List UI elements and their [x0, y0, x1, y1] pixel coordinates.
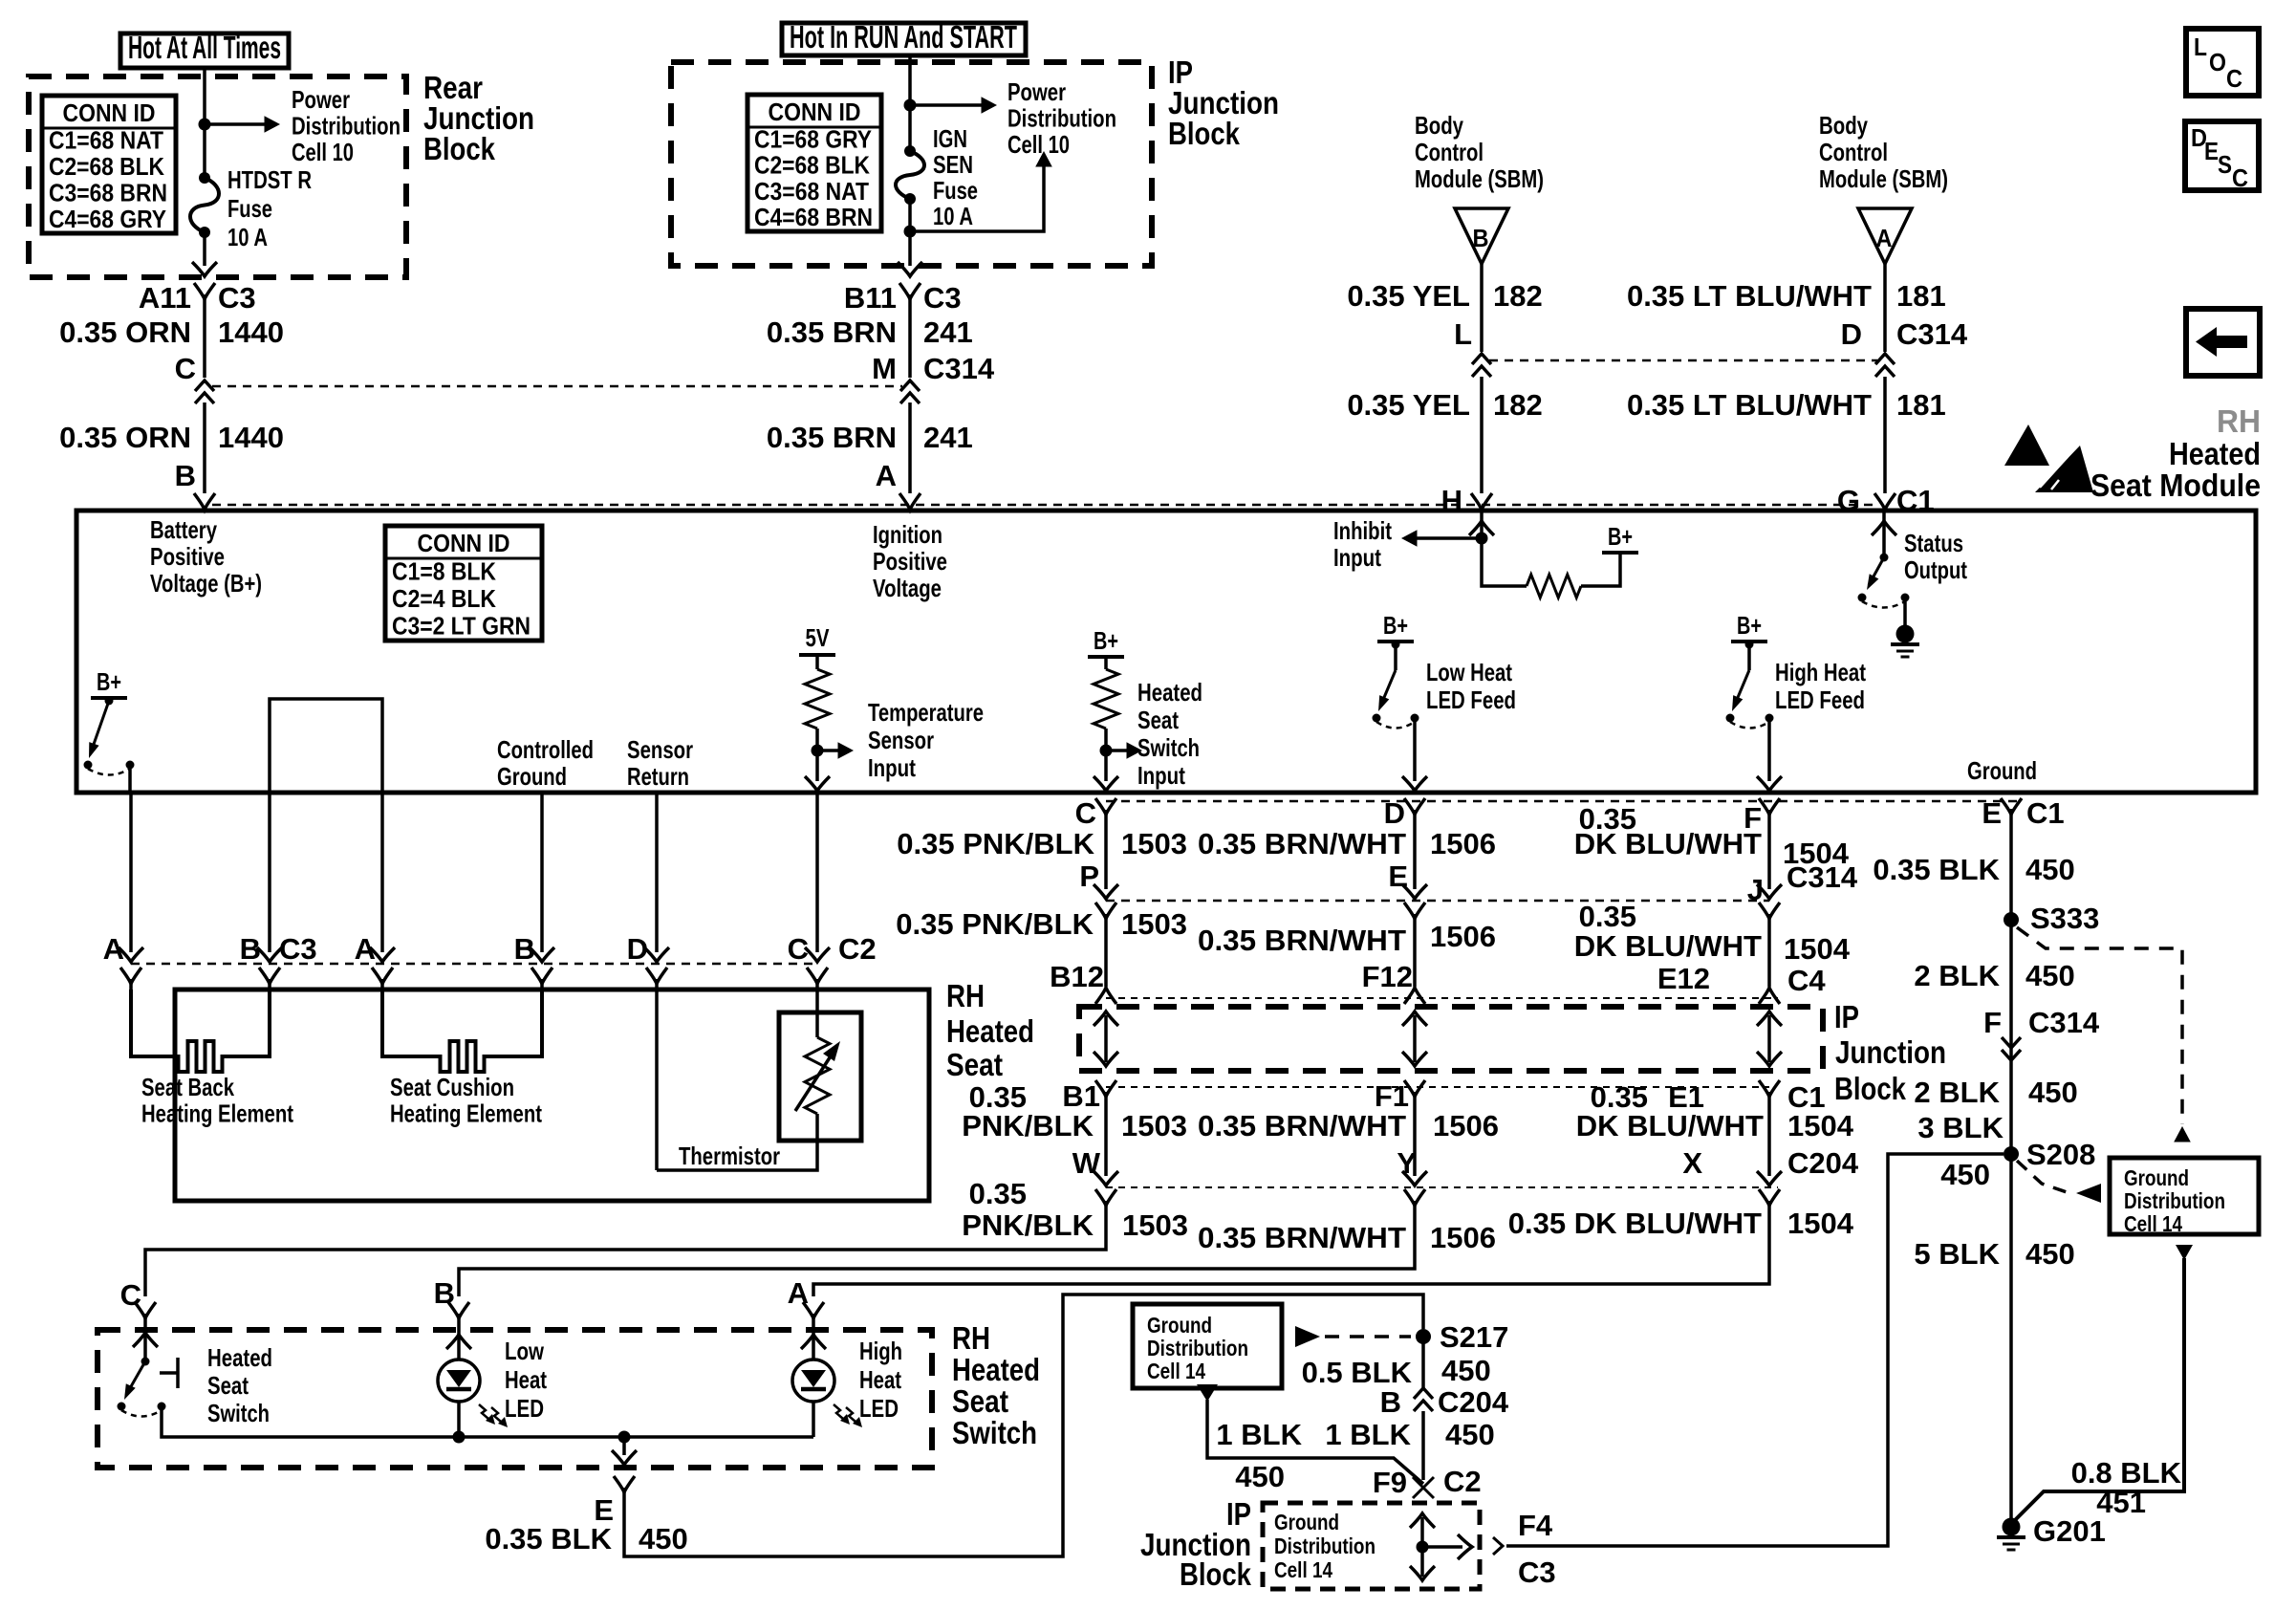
svg-text:0.35 BRN/WHT: 0.35 BRN/WHT [1198, 1221, 1406, 1254]
connector F4 / C3 [1493, 1537, 1503, 1555]
svg-text:0.35 BLK: 0.35 BLK [1873, 853, 2000, 886]
svg-text:B11: B11 [844, 281, 897, 315]
svg-text:CONN ID: CONN ID [418, 529, 510, 557]
wire 0.35 BLK 450 from switch to S217 [624, 1295, 1423, 1556]
connector C3 pin A11 [194, 283, 215, 299]
svg-text:Cell 14: Cell 14 [1147, 1359, 1205, 1383]
wire from thermistor to sensor return [657, 1114, 817, 1170]
svg-text:450: 450 [1235, 1460, 1285, 1493]
svg-text:S333: S333 [2030, 902, 2099, 935]
wire 0.35 ORN circuit 1440 (lower) [203, 402, 206, 493]
Rear Junction Block (dashed box) [29, 76, 406, 277]
arrowhead at C314 row [1402, 884, 1427, 899]
arrowhead to Power Distribution Cell 10 [982, 97, 998, 114]
svg-text:0.35 BRN: 0.35 BRN [767, 421, 897, 454]
thermistor resistor zigzag [805, 1037, 830, 1114]
svg-text:D: D [1841, 317, 1862, 351]
svg-text:0.35 BRN/WHT: 0.35 BRN/WHT [1198, 924, 1406, 957]
wire 0.5 BLK 450 [1421, 1337, 1425, 1388]
wire from F4 to S208 [1506, 1154, 2004, 1546]
back-arrow reference box [2186, 309, 2260, 376]
junction node (F4) [1417, 1541, 1429, 1554]
svg-text:Sensor: Sensor [627, 735, 693, 764]
svg-text:C2: C2 [1443, 1465, 1482, 1498]
svg-text:B+: B+ [1383, 611, 1408, 640]
connector C314 pin J [1759, 903, 1780, 919]
svg-text:1506: 1506 [1430, 920, 1496, 953]
svg-text:450: 450 [2028, 1076, 2078, 1109]
high heat LED [792, 1360, 834, 1402]
svg-text:B: B [1473, 224, 1489, 252]
switch arc (dashed) [1730, 722, 1769, 729]
splice S217 [1416, 1329, 1431, 1344]
connector C1 (IPJB) pin E1 [1759, 1080, 1780, 1097]
wire: battery feed into junction block [203, 68, 206, 178]
svg-text:C3: C3 [1518, 1556, 1556, 1589]
connector C314 pin P [1095, 903, 1116, 919]
connector C1 (IPJB) pin F1 [1404, 1080, 1425, 1097]
svg-text:W: W [1072, 1146, 1101, 1180]
thermistor arrow [795, 1052, 834, 1111]
switch arm [91, 701, 109, 752]
svg-text:0.35 YEL: 0.35 YEL [1347, 279, 1470, 313]
connector C4 pin F12 [1404, 988, 1425, 1004]
svg-text:Fuse: Fuse [227, 194, 272, 223]
wire: branch up to Power Distribution [910, 164, 1044, 231]
Ground Distribution Cell 14 box (right) [2110, 1158, 2259, 1234]
svg-text:C3: C3 [279, 932, 317, 966]
connector pin E (switch) [614, 1476, 635, 1492]
svg-text:E12: E12 [1657, 962, 1710, 995]
svg-text:Voltage (B+): Voltage (B+) [150, 569, 262, 598]
arrowhead at switch box exit (E) [612, 1450, 637, 1465]
svg-text:Seat Back: Seat Back [141, 1073, 234, 1101]
svg-text:Control: Control [1819, 138, 1888, 166]
svg-text:C: C [2226, 64, 2242, 93]
connector: module pin B [194, 493, 215, 510]
svg-text:0.35 BLK: 0.35 BLK [485, 1522, 612, 1556]
switch arc (dashed) [1862, 601, 1905, 608]
svg-text:Heated: Heated [1137, 678, 1202, 707]
svg-text:B: B [175, 459, 196, 492]
svg-text:Fuse: Fuse [933, 176, 978, 205]
svg-text:241: 241 [923, 315, 973, 349]
dashed branch from S333 to ground distribution [2017, 927, 2182, 1124]
svg-text:Seat: Seat [1137, 706, 1179, 734]
seat cushion heating element [382, 990, 542, 1072]
seat connector pin [531, 968, 552, 984]
svg-text:DK BLU/WHT: DK BLU/WHT [1574, 827, 1762, 860]
wire 0.35 LT BLU/WHT 181 (upper) [1883, 264, 1887, 352]
arrowhead into switch box (B) [446, 1335, 471, 1349]
svg-text:A11: A11 [139, 281, 191, 315]
in-line connector F (C314) [2002, 1037, 2021, 1060]
svg-text:Voltage: Voltage [873, 574, 942, 602]
junction block pass-through wire [1767, 1015, 1771, 1062]
svg-text:L: L [1454, 317, 1472, 351]
svg-text:Input: Input [1333, 543, 1381, 572]
svg-text:A: A [876, 459, 897, 492]
svg-text:Module (SBM): Module (SBM) [1415, 164, 1544, 193]
svg-text:2 BLK: 2 BLK [1914, 1076, 2000, 1109]
dashed connector line C314 (right) [1489, 359, 1877, 362]
seat connector pin [259, 968, 280, 984]
svg-text:2 BLK: 2 BLK [1914, 959, 2000, 992]
connector C204 pin X [1759, 1189, 1780, 1206]
svg-text:0.35 YEL: 0.35 YEL [1347, 388, 1470, 422]
svg-text:Seat Module: Seat Module [2090, 468, 2261, 503]
svg-text:C1=68 NAT: C1=68 NAT [49, 125, 163, 154]
svg-text:Power: Power [292, 85, 350, 114]
resistor (switch input) [1094, 669, 1118, 729]
in-line connector F9 / C2 [1413, 1477, 1434, 1498]
ground G201 [2003, 1518, 2021, 1536]
svg-text:C2: C2 [838, 932, 877, 966]
svg-text:C204: C204 [1438, 1385, 1509, 1419]
svg-text:Distribution: Distribution [2124, 1188, 2225, 1213]
svg-text:Heating Element: Heating Element [141, 1099, 293, 1128]
svg-text:Block: Block [423, 131, 496, 166]
wire from switch to module pin [128, 764, 132, 793]
power source box "Hot At All Times" [120, 33, 289, 68]
svg-text:Ignition: Ignition [873, 520, 942, 549]
branch to Heated Seat Switch Input [1106, 749, 1134, 752]
svg-text:C4=68 BRN: C4=68 BRN [754, 203, 873, 231]
svg-text:450: 450 [1445, 1418, 1495, 1451]
seat connector pin [807, 968, 828, 984]
svg-text:Battery: Battery [150, 515, 217, 544]
svg-text:L: L [2194, 33, 2207, 61]
svg-text:C3=68 NAT: C3=68 NAT [754, 177, 869, 206]
switch common wire to LEDs [162, 1406, 813, 1437]
svg-text:B: B [514, 932, 535, 966]
connector C1 pin F [1759, 798, 1780, 815]
svg-text:CONN ID: CONN ID [769, 98, 861, 126]
svg-text:1504: 1504 [1784, 932, 1851, 966]
connector C1 pin D [1404, 798, 1425, 815]
svg-text:1 BLK: 1 BLK [1325, 1418, 1411, 1451]
svg-text:Cell 14: Cell 14 [2124, 1211, 2182, 1236]
switch arm arrowhead [89, 742, 99, 758]
svg-text:C3: C3 [923, 281, 962, 315]
wire W run to heated seat switch pin C [145, 1201, 1106, 1296]
svg-text:Cell 14: Cell 14 [1274, 1557, 1332, 1582]
svg-text:Ground: Ground [497, 762, 567, 791]
switch arm arrowhead [124, 1383, 136, 1400]
svg-text:Heated: Heated [2169, 436, 2261, 471]
arrowhead at seat connector [119, 947, 143, 962]
svg-text:C314: C314 [2028, 1006, 2100, 1039]
connector row C314 (dashed) [1106, 900, 1769, 903]
svg-text:Seat: Seat [207, 1371, 249, 1400]
svg-text:Input: Input [1137, 761, 1185, 790]
junction block pass-through wire [1413, 1015, 1417, 1062]
svg-text:182: 182 [1493, 388, 1543, 422]
svg-text:S208: S208 [2026, 1138, 2095, 1171]
svg-text:Distribution: Distribution [1274, 1534, 1375, 1558]
svg-text:Controlled: Controlled [497, 735, 594, 764]
in-line connector B (C204) [1414, 1388, 1433, 1411]
power source box "Hot In RUN And START" [782, 23, 1026, 55]
dashed branch from S208 to ground distribution box [2017, 1161, 2069, 1193]
RH Heated Seat Module (box) [76, 511, 2256, 793]
svg-text:C4=68 GRY: C4=68 GRY [49, 205, 166, 233]
arrowhead up to Power Distribution [1035, 151, 1052, 167]
switch arc (dashed) [121, 1410, 162, 1417]
heated seat switch (momentary) [141, 1358, 150, 1366]
wires from module pins down to seat connector [129, 793, 133, 952]
dashed connector line C314 (left) [212, 385, 902, 388]
svg-text:Power: Power [1007, 77, 1066, 106]
svg-text:Seat Cushion: Seat Cushion [390, 1073, 514, 1101]
arrowhead at C314 row [1094, 884, 1118, 899]
svg-text:LED: LED [859, 1394, 899, 1423]
IP Junction Block (dashed box, top) [671, 62, 1152, 266]
svg-text:Heated: Heated [952, 1352, 1040, 1387]
svg-text:Distribution: Distribution [1147, 1336, 1248, 1360]
Ground Distribution Cell 14 box (left) [1133, 1304, 1282, 1388]
svg-text:C: C [788, 932, 809, 966]
svg-text:C314: C314 [1787, 860, 1858, 894]
CONN ID table (Rear Junction Block) [42, 96, 176, 233]
svg-text:Ground: Ground [1274, 1510, 1339, 1534]
arrowhead at seat connector [370, 947, 395, 962]
connector C1 (IPJB) pin B1 [1095, 1080, 1116, 1097]
svg-text:Positive: Positive [150, 542, 225, 571]
svg-text:Control: Control [1415, 138, 1484, 166]
svg-text:RH: RH [952, 1320, 990, 1356]
svg-text:450: 450 [2025, 959, 2075, 992]
svg-text:Low: Low [505, 1337, 545, 1365]
svg-text:1440: 1440 [218, 421, 284, 454]
svg-text:C3: C3 [218, 281, 256, 315]
svg-text:CONN ID: CONN ID [63, 98, 156, 127]
svg-text:C314: C314 [1896, 317, 1968, 351]
wire: branch to Power Distribution [910, 103, 987, 107]
svg-text:181: 181 [1896, 388, 1946, 422]
svg-text:1504: 1504 [1787, 1109, 1854, 1142]
CONN ID table (Heated Seat Module) [385, 526, 542, 641]
svg-text:Return: Return [627, 762, 689, 791]
svg-text:5 BLK: 5 BLK [1914, 1237, 2000, 1271]
svg-text:0.35 BRN: 0.35 BRN [767, 315, 897, 349]
junction block internal ground wire [1420, 1517, 1424, 1577]
ESD static-sensitive symbol [2004, 424, 2049, 466]
svg-text:181: 181 [1896, 279, 1946, 313]
arrowhead at IP junction block exit [898, 262, 922, 276]
arrowhead at seat connector [530, 947, 554, 962]
svg-text:1 BLK: 1 BLK [1216, 1418, 1302, 1451]
svg-text:F4: F4 [1518, 1509, 1553, 1542]
wire 0.35 BRN circuit 241 (lower) [908, 402, 912, 493]
wire 0.35 YEL 182 (upper) [1480, 264, 1484, 352]
switch arm [1380, 670, 1396, 707]
DESC reference box [2185, 121, 2259, 190]
IP Junction Block (dashed box, middle) [1079, 1007, 1823, 1071]
svg-text:B+: B+ [97, 667, 121, 696]
svg-text:Body: Body [1415, 111, 1463, 140]
svg-text:Y: Y [1397, 1146, 1417, 1180]
svg-text:Ground: Ground [1967, 756, 2037, 785]
svg-text:10 A: 10 A [227, 223, 268, 251]
svg-text:0.35: 0.35 [969, 1177, 1027, 1210]
arrowhead up at pin G [1872, 521, 1896, 535]
svg-text:0.35: 0.35 [1579, 900, 1636, 933]
svg-text:Block: Block [1168, 116, 1241, 151]
seat connector pin [120, 968, 141, 984]
svg-text:1503: 1503 [1121, 907, 1187, 941]
svg-text:0.35 DK BLU/WHT: 0.35 DK BLU/WHT [1508, 1207, 1762, 1240]
branch to Inhibit Input [1411, 536, 1482, 540]
arrowhead up at pin H [1469, 521, 1494, 535]
low heat LED [438, 1360, 480, 1402]
svg-text:1504: 1504 [1787, 1207, 1854, 1240]
arrowhead at junction block exit [192, 262, 217, 276]
svg-text:B+: B+ [1737, 611, 1762, 640]
svg-text:0.35 LT BLU/WHT: 0.35 LT BLU/WHT [1627, 279, 1872, 313]
svg-text:F9: F9 [1373, 1466, 1407, 1499]
svg-text:Heated: Heated [946, 1013, 1034, 1049]
in-line connector D (C314) [1875, 354, 1895, 377]
svg-text:C: C [175, 352, 196, 385]
CONN ID table (IP Junction Block) [747, 95, 881, 231]
off-page triangle A (Body Control Module) [1858, 208, 1912, 264]
switch arm [1869, 557, 1884, 585]
inhibit input circuit [1482, 511, 1527, 586]
svg-text:C204: C204 [1787, 1146, 1859, 1180]
connector C314 pin E [1404, 903, 1425, 919]
off-page triangle B (Body Control Module) [1455, 208, 1508, 264]
svg-text:C2=4 BLK: C2=4 BLK [392, 584, 496, 613]
svg-text:182: 182 [1493, 279, 1543, 313]
svg-text:Heat: Heat [859, 1365, 901, 1394]
svg-text:1503: 1503 [1122, 1208, 1188, 1242]
svg-text:Seat: Seat [946, 1047, 1003, 1082]
connector C204 pin Y [1404, 1189, 1425, 1206]
svg-text:Heated: Heated [207, 1343, 272, 1372]
wire X run to heated seat switch pin A [813, 1201, 1769, 1296]
dashed connector line C3/C2 (heated seat) [131, 963, 817, 966]
resistor (temperature sensor) [805, 669, 830, 729]
switch arm [126, 1361, 145, 1395]
arrowhead at seat connector [805, 947, 830, 962]
svg-text:SEN: SEN [933, 150, 973, 179]
svg-text:RH: RH [2217, 403, 2261, 439]
svg-text:DK BLU/WHT: DK BLU/WHT [1574, 929, 1762, 963]
svg-text:1440: 1440 [218, 315, 284, 349]
arrowhead at C314 row [1757, 884, 1782, 899]
arrowhead at module pin D [1402, 776, 1427, 791]
svg-text:G201: G201 [2033, 1514, 2106, 1548]
svg-text:1503: 1503 [1121, 1109, 1187, 1142]
svg-text:Switch: Switch [952, 1415, 1037, 1450]
svg-text:Hot In RUN And START: Hot In RUN And START [790, 19, 1017, 54]
svg-text:D: D [627, 932, 648, 966]
arrowhead up (S333 branch) [2174, 1126, 2191, 1142]
junction node [199, 119, 211, 131]
svg-text:Block: Block [1834, 1071, 1907, 1106]
connector: module pin G [1874, 493, 1895, 510]
junction block pass-through wire [1104, 1015, 1108, 1062]
svg-text:Sensor: Sensor [868, 726, 934, 754]
svg-text:A: A [103, 932, 124, 966]
switch arm arrowhead [1378, 695, 1389, 711]
svg-text:LED Feed: LED Feed [1775, 685, 1865, 714]
wire: branch to Power Distribution [205, 122, 271, 126]
svg-text:D: D [1384, 796, 1405, 830]
connector C204 pin W [1095, 1189, 1116, 1206]
resistor (inhibit) [1527, 575, 1581, 598]
connector row C1 of IP junction block (dashed) [1106, 1086, 1769, 1088]
svg-text:X: X [1682, 1146, 1702, 1180]
svg-text:C3=68 BRN: C3=68 BRN [49, 178, 167, 207]
svg-text:Ground: Ground [1147, 1313, 1212, 1338]
branch to Temperature Sensor Input [817, 749, 845, 752]
svg-text:0.35 ORN: 0.35 ORN [59, 315, 191, 349]
svg-text:Low Heat: Low Heat [1426, 658, 1512, 686]
ground symbol (status output) [1896, 625, 1915, 643]
svg-text:Output: Output [1904, 555, 1967, 584]
fuse IGN SEN 10 A [904, 145, 916, 157]
svg-text:Body: Body [1819, 111, 1868, 140]
svg-text:Distribution: Distribution [1007, 104, 1116, 133]
switch arm arrowhead [1732, 695, 1743, 711]
svg-text:0.35 PNK/BLK: 0.35 PNK/BLK [897, 827, 1094, 860]
svg-text:Module (SBM): Module (SBM) [1819, 164, 1948, 193]
RH Heated Seat (box) [175, 990, 929, 1201]
svg-text:LED Feed: LED Feed [1426, 685, 1516, 714]
svg-text:F12: F12 [1362, 960, 1413, 993]
svg-text:Thermistor: Thermistor [679, 1142, 780, 1170]
svg-text:J: J [1747, 873, 1764, 906]
splice S208 [2004, 1146, 2019, 1162]
svg-text:B1: B1 [1062, 1079, 1100, 1113]
arrowhead at module pin F [1757, 776, 1782, 791]
svg-text:B+: B+ [1608, 522, 1633, 551]
svg-text:PNK/BLK: PNK/BLK [962, 1109, 1094, 1142]
junction node [904, 99, 917, 112]
svg-text:450: 450 [2025, 853, 2075, 886]
wire 1 BLK 450 [1421, 1411, 1425, 1480]
svg-text:0.35 PNK/BLK: 0.35 PNK/BLK [896, 907, 1094, 941]
svg-text:450: 450 [2025, 1237, 2075, 1271]
arrowhead at module pin C [805, 776, 830, 791]
svg-text:C3=2 LT GRN: C3=2 LT GRN [392, 612, 531, 641]
junction node [1100, 745, 1113, 757]
junction node [1476, 533, 1488, 545]
junction node (pin E) [618, 1431, 631, 1444]
svg-text:Block: Block [1180, 1556, 1252, 1592]
thermistor enclosure box [779, 1012, 861, 1141]
svg-text:0.35 BRN/WHT: 0.35 BRN/WHT [1198, 1109, 1406, 1142]
seat back heating element [131, 990, 270, 1072]
svg-text:241: 241 [923, 421, 973, 454]
connector row C4 (dashed) [1106, 997, 1778, 999]
svg-text:0.35 BRN/WHT: 0.35 BRN/WHT [1198, 827, 1406, 860]
wire 0.35 YEL 182 (lower) [1480, 377, 1484, 493]
svg-text:C1=8 BLK: C1=8 BLK [392, 556, 496, 585]
switch arm [1734, 670, 1749, 707]
svg-text:F1: F1 [1375, 1079, 1409, 1113]
svg-text:3 BLK: 3 BLK [1917, 1111, 2004, 1144]
svg-text:C314: C314 [923, 352, 995, 385]
svg-text:IP: IP [1834, 999, 1859, 1034]
connector C1 pin C [1095, 798, 1116, 815]
svg-text:C1=68 GRY: C1=68 GRY [754, 124, 872, 153]
switch arc (dashed) [1376, 722, 1415, 729]
svg-text:Switch: Switch [1137, 733, 1200, 762]
svg-text:IGN: IGN [933, 124, 967, 153]
